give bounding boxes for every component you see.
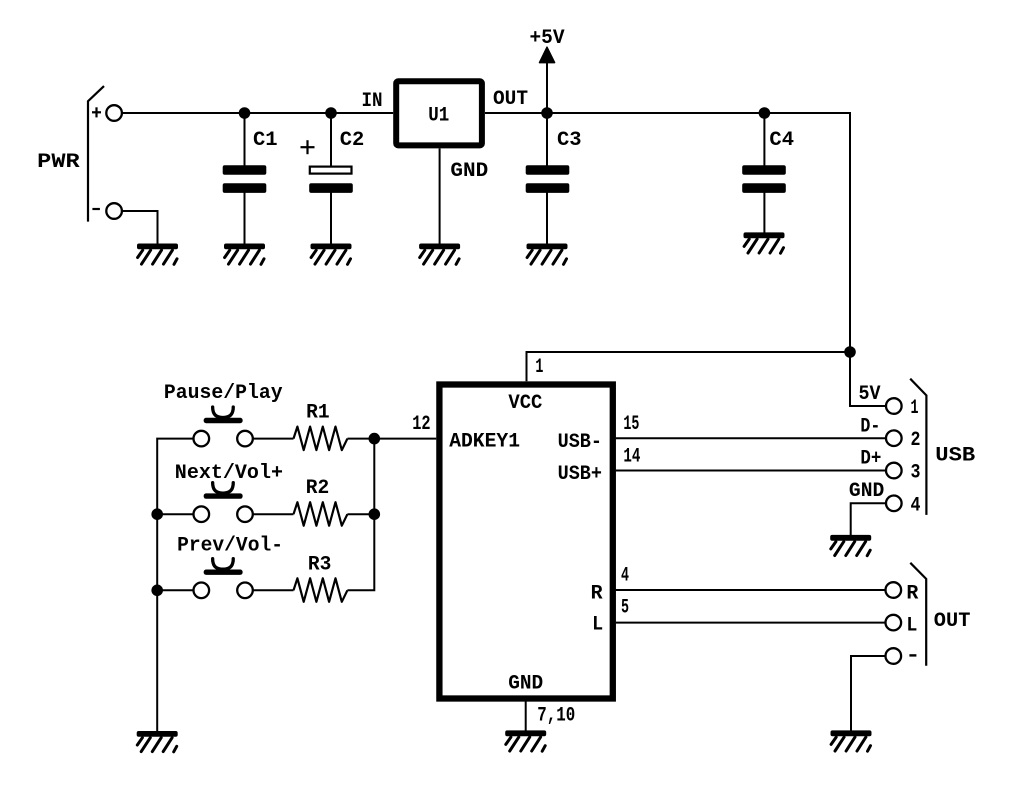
svg-text:Next/Vol+: Next/Vol+ xyxy=(175,462,283,485)
ground at USB xyxy=(830,535,871,556)
ground at U1 xyxy=(419,244,460,265)
connector USB bracket xyxy=(910,379,926,515)
svg-text:7,10: 7,10 xyxy=(537,705,575,728)
wire row2 to R2 xyxy=(253,513,294,515)
wire 5V rail to USB pin1 xyxy=(850,352,886,406)
node junction rail row3 xyxy=(151,585,163,597)
svg-text:R: R xyxy=(591,583,604,606)
svg-text:4: 4 xyxy=(911,494,921,517)
svg-text:USB+: USB+ xyxy=(558,463,602,486)
wire chip GND xyxy=(525,698,527,731)
svg-text:L: L xyxy=(906,614,917,637)
capacitor C3 xyxy=(526,165,570,193)
wire C1 top xyxy=(244,113,246,166)
svg-text:C2: C2 xyxy=(340,129,365,152)
ground at C4 xyxy=(744,232,785,253)
button Pause/Play S1 xyxy=(194,407,253,446)
wire R2 to rail xyxy=(347,513,374,515)
wire OUT minus to ground xyxy=(851,656,886,731)
svg-text:R3: R3 xyxy=(308,554,332,577)
wire chip L to OUT L xyxy=(616,622,886,624)
wire C2 bottom xyxy=(330,192,332,244)
USB terminal 3 xyxy=(886,463,902,479)
node junction right rail row1 xyxy=(369,433,381,445)
wire chip VCC pin 1 xyxy=(527,352,851,381)
svg-text:IN: IN xyxy=(362,90,383,113)
wire R1 to chip pin 12 xyxy=(347,438,436,440)
OUT terminal R xyxy=(886,582,902,598)
USB terminal 1 xyxy=(886,398,902,414)
svg-text:GND: GND xyxy=(508,673,543,696)
button Next/Vol+ S2 xyxy=(194,483,253,522)
wire chip USB- to USB pin2 xyxy=(616,437,886,439)
wire rail to row2 button xyxy=(157,513,193,515)
wire C4 bottom xyxy=(763,192,765,233)
svg-text:C3: C3 xyxy=(557,129,582,152)
wire R3 up right rail xyxy=(347,439,374,591)
PWR plus sign xyxy=(92,107,101,117)
wire row3 to R3 xyxy=(253,589,294,591)
svg-text:GND: GND xyxy=(450,160,488,183)
ground at C3 xyxy=(527,244,568,265)
resistor R2 xyxy=(294,502,348,526)
connector OUT bracket xyxy=(910,563,926,666)
svg-text:C4: C4 xyxy=(769,129,794,152)
PWR minus sign xyxy=(92,208,100,210)
ground at chip xyxy=(505,730,546,751)
svg-text:15: 15 xyxy=(623,413,639,436)
svg-text:3: 3 xyxy=(911,462,921,485)
svg-text:USB-: USB- xyxy=(558,431,602,454)
ground at OUT xyxy=(831,730,872,751)
svg-text:R1: R1 xyxy=(306,402,330,425)
power +5V symbol xyxy=(530,27,566,113)
wire U1 OUT to right rail xyxy=(485,113,850,352)
wire C4 top xyxy=(763,113,765,166)
svg-text:OUT: OUT xyxy=(493,88,528,111)
wire PWR- to ground xyxy=(122,211,158,244)
svg-text:1: 1 xyxy=(911,397,919,420)
node junction C2 xyxy=(325,107,337,119)
wire C3 bottom xyxy=(546,192,548,244)
wire PWR+ to U1 IN xyxy=(122,112,393,114)
wire left rail buttons to ground xyxy=(157,439,193,731)
svg-text:14: 14 xyxy=(623,446,640,469)
ground at C1 xyxy=(224,244,265,265)
wire C3 top xyxy=(546,113,548,166)
svg-text:D+: D+ xyxy=(860,448,881,471)
svg-text:C1: C1 xyxy=(253,129,278,152)
capacitor C2 polarized xyxy=(301,140,353,193)
wire USB pin4 to ground xyxy=(851,503,886,535)
USB terminal 4 xyxy=(886,496,902,512)
USB terminal 2 xyxy=(886,430,902,446)
ground at PWR- xyxy=(137,244,178,265)
op-amp U1 voltage regulator box xyxy=(396,81,482,145)
capacitor C4 xyxy=(742,165,786,193)
node junction C1 xyxy=(239,107,251,119)
wire chip R to OUT R xyxy=(616,589,886,591)
wire C1 bottom xyxy=(244,192,246,244)
svg-text:Pause/Play: Pause/Play xyxy=(164,382,283,405)
OUT terminal L xyxy=(886,615,902,631)
node junction 5V rail xyxy=(844,346,856,358)
svg-text:12: 12 xyxy=(412,413,430,436)
svg-text:OUT: OUT xyxy=(934,610,971,633)
svg-text:4: 4 xyxy=(621,565,629,588)
wire chip USB+ to USB pin3 xyxy=(616,470,886,472)
svg-text:+5V: +5V xyxy=(530,27,566,50)
node junction C3/+5V xyxy=(541,107,553,119)
svg-text:PWR: PWR xyxy=(37,151,80,174)
ground at C2 xyxy=(311,244,352,265)
wire C2 top xyxy=(330,113,332,166)
OUT terminal minus xyxy=(886,648,902,664)
label minus xyxy=(909,654,916,656)
svg-text:USB: USB xyxy=(935,445,975,468)
svg-text:5V: 5V xyxy=(859,383,882,406)
connector PWR bracket xyxy=(88,86,104,222)
svg-text:R2: R2 xyxy=(306,477,330,500)
PWR terminal - xyxy=(106,203,122,219)
resistor R3 xyxy=(294,578,348,602)
wire row1 to R1 xyxy=(253,438,294,440)
wire rail to row3 button xyxy=(157,589,193,591)
svg-text:D-: D- xyxy=(860,416,880,439)
svg-text:U1: U1 xyxy=(428,105,449,128)
capacitor C1 xyxy=(223,165,267,193)
resistor R1 xyxy=(294,427,348,451)
node junction rail row2 xyxy=(151,508,163,520)
transistor chip ADKEY1 box xyxy=(439,385,612,699)
svg-text:GND: GND xyxy=(849,480,884,503)
svg-text:2: 2 xyxy=(911,429,921,452)
svg-text:Prev/Vol-: Prev/Vol- xyxy=(177,534,283,557)
PWR terminal + xyxy=(106,105,122,121)
svg-text:5: 5 xyxy=(621,596,629,619)
ground at button rail xyxy=(137,731,178,752)
button Prev/Vol- S3 xyxy=(194,559,253,598)
svg-text:L: L xyxy=(592,613,603,636)
node junction right rail row2 xyxy=(369,508,381,520)
wire U1 GND xyxy=(439,149,441,245)
svg-text:R: R xyxy=(906,583,919,606)
node junction C4 xyxy=(759,107,771,119)
svg-text:1: 1 xyxy=(535,356,543,379)
svg-text:VCC: VCC xyxy=(508,392,542,415)
svg-text:ADKEY1: ADKEY1 xyxy=(449,431,520,454)
